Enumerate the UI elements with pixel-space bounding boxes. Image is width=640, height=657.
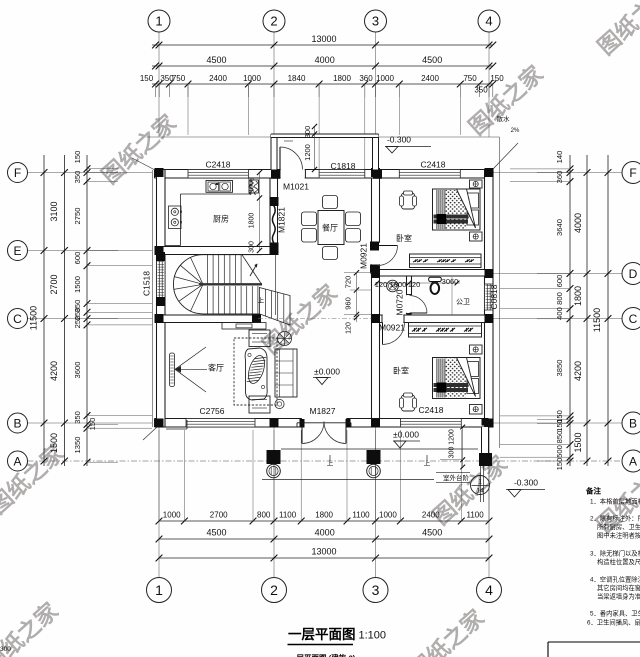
axis circle A right (622, 450, 640, 472)
hall dim line (344, 270, 372, 334)
svg-text:5．番内家具、卫生洁具仅供参考: 5．番内家具、卫生洁具仅供参考 (590, 609, 640, 618)
level bottom -0.300 (506, 478, 545, 498)
svg-text:800: 800 (555, 292, 564, 305)
svg-text:1000: 1000 (379, 511, 397, 520)
stair up label (258, 296, 265, 305)
svg-text:4: 4 (485, 582, 493, 598)
room label dining (322, 224, 338, 233)
porch column axis2 (267, 450, 281, 478)
svg-text:4200: 4200 (573, 361, 583, 381)
svg-text:140: 140 (555, 151, 564, 164)
svg-text:3850: 3850 (555, 360, 564, 377)
wall axis1 (west exterior) (157, 170, 166, 428)
room label living (208, 363, 224, 373)
left dimension lines (41, 155, 152, 466)
window C1818 top-center (319, 170, 365, 179)
label C1518 (142, 271, 152, 296)
axis D line right (380, 273, 623, 275)
svg-text:1000: 1000 (243, 74, 261, 83)
wardrobe bedroom2 (409, 323, 482, 338)
svg-text:C2418: C2418 (205, 160, 230, 170)
svg-text:1000: 1000 (376, 74, 394, 83)
svg-text:4．空调孔位置除注明外，离地面2: 4．空调孔位置除注明外，离地面2 (590, 575, 640, 584)
svg-text:2%: 2% (511, 128, 520, 134)
wall D bath north (372, 270, 494, 277)
axis circle A left (8, 451, 28, 471)
kitchen flue (249, 180, 259, 195)
svg-text:720: 720 (344, 276, 353, 289)
top dim row 4500 4000 4500 (206, 55, 442, 65)
svg-text:M0720: M0720 (395, 289, 405, 315)
svg-text:1800: 1800 (333, 74, 351, 83)
svg-text:11500: 11500 (592, 308, 602, 332)
room label bath (456, 298, 470, 306)
svg-text:所有厨房、卫生间墙体四周除门: 所有厨房、卫生间墙体四周除门 (597, 522, 640, 531)
svg-text:4000: 4000 (573, 213, 583, 233)
svg-text:C1518: C1518 (142, 271, 152, 296)
svg-text:150: 150 (490, 74, 504, 83)
axis C interior segment (258, 318, 372, 320)
kitchen sink (206, 181, 233, 193)
bottom dimension lines (156, 430, 493, 561)
svg-text:卧室: 卧室 (393, 366, 409, 376)
wall C living top (157, 315, 259, 323)
titleblock rectangle corner (548, 642, 640, 657)
eave hip line top-left (132, 158, 155, 170)
svg-text:120: 120 (375, 280, 388, 289)
svg-text:1:100: 1:100 (359, 630, 387, 642)
svg-text:350: 350 (73, 411, 82, 424)
living rug (234, 338, 277, 405)
svg-text:1: 1 (155, 14, 162, 29)
label C2418 top-left (205, 160, 230, 170)
svg-text:400: 400 (555, 307, 564, 320)
svg-text:餐厅: 餐厅 (322, 224, 338, 233)
kitchen stove (169, 206, 182, 229)
svg-text:360: 360 (359, 74, 373, 83)
bath partition wall (407, 276, 412, 314)
svg-text:1800: 1800 (390, 280, 407, 289)
porch corner column (479, 453, 492, 466)
svg-text:120: 120 (408, 280, 421, 289)
svg-text:B: B (629, 417, 637, 431)
top dim total 13000 (311, 34, 336, 44)
outdoor steps rails (481, 466, 484, 502)
door M1821 sliding leaf in axis2 wall (270, 205, 278, 244)
svg-text:1000: 1000 (163, 511, 181, 520)
axis circle D right (622, 263, 640, 285)
axis circle 2 bottom (262, 578, 287, 603)
svg-text:M1827: M1827 (310, 406, 336, 416)
svg-text:M0921: M0921 (359, 243, 369, 269)
bath dim line (375, 277, 460, 315)
svg-text:2: 2 (270, 14, 277, 29)
door M0921 dining leaf (378, 246, 398, 266)
porch column axis3 (367, 450, 381, 478)
label C2418 bottom (418, 405, 443, 415)
right dim total 11500 (592, 308, 602, 332)
svg-text:250: 250 (73, 316, 82, 329)
svg-text:4500: 4500 (422, 528, 442, 538)
svg-text:A: A (629, 455, 637, 469)
axis circle 3 bottom (363, 578, 388, 603)
svg-text:1500: 1500 (49, 433, 59, 453)
label M0921 bedroom2 (379, 323, 405, 333)
svg-text:M1021: M1021 (283, 182, 309, 192)
svg-text:A: A (13, 455, 21, 469)
svg-text:卧室: 卧室 (396, 233, 412, 243)
kitchen counter (165, 178, 251, 246)
watermark 2 (464, 60, 549, 140)
roof eave lines (147, 137, 500, 448)
svg-text:150: 150 (555, 458, 564, 471)
room label bedroom2 (393, 366, 409, 376)
svg-text:厨房: 厨房 (213, 214, 229, 224)
watermark 1 (97, 109, 182, 189)
svg-text:3100: 3100 (49, 201, 59, 221)
svg-text:C0818: C0818 (489, 284, 499, 309)
window C0818 east (485, 284, 494, 310)
svg-text:120: 120 (346, 322, 353, 334)
structural columns (155, 168, 494, 428)
watermark 5 (0, 439, 69, 519)
svg-text:1000: 1000 (249, 177, 256, 193)
svg-text:F: F (629, 166, 636, 180)
dining table and chairs (302, 196, 361, 260)
svg-text:2400: 2400 (422, 511, 440, 520)
svg-text:构造柱位置及尺寸详见结构施工: 构造柱位置及尺寸详见结构施工 (597, 557, 640, 566)
axis circle F left (8, 163, 28, 183)
level hall pm0.000 (313, 367, 340, 385)
svg-text:3: 3 (372, 582, 380, 598)
svg-text:1840: 1840 (288, 74, 306, 83)
svg-text:4000: 4000 (315, 55, 335, 65)
outdoor steps label (436, 473, 490, 495)
living armchair top (249, 330, 270, 347)
svg-text:150: 150 (140, 74, 154, 83)
window C2418 top-right (399, 170, 460, 179)
tv bench (222, 323, 266, 330)
axis circle C left (8, 309, 28, 329)
svg-text:±0.000: ±0.000 (393, 430, 419, 440)
window C1518 west (157, 260, 166, 298)
right dim chain values (555, 151, 564, 471)
svg-text:M1821: M1821 (277, 207, 287, 233)
svg-text:300: 300 (303, 126, 312, 139)
window C2756 bottom-left (186, 419, 255, 428)
svg-text:公卫: 公卫 (456, 298, 470, 306)
door opening M0921 dining in axis3 wall (371, 242, 380, 265)
svg-text:2750: 2750 (73, 208, 82, 225)
bottom dim chain values (163, 511, 484, 520)
svg-text:-0.300: -0.300 (514, 478, 538, 488)
door M0720 leaf and swing (410, 296, 428, 314)
toilet (429, 277, 442, 294)
svg-text:850: 850 (555, 431, 564, 444)
svg-text:2400: 2400 (421, 74, 439, 83)
column B4 (482, 418, 489, 426)
svg-text:800: 800 (257, 511, 271, 520)
label C2418 top-right (420, 160, 445, 170)
living side table (275, 399, 284, 408)
svg-text:1350: 1350 (73, 437, 82, 454)
sanshui note (497, 114, 521, 134)
svg-text:1100: 1100 (279, 511, 297, 520)
svg-text:6．卫生间播风、扇气见设备图。: 6．卫生间播风、扇气见设备图。 (587, 618, 640, 627)
rear bay walls (271, 134, 379, 170)
walkway stub wall at axis4 (482, 427, 489, 453)
svg-text:1800: 1800 (315, 511, 333, 520)
living chaise lounge (245, 348, 268, 400)
svg-text:1800: 1800 (573, 286, 583, 306)
apron corner bottom-left (143, 427, 157, 440)
wall C bath-bedroom2 (372, 315, 494, 323)
title underline (288, 644, 354, 646)
corner dim 300 (0, 646, 11, 653)
watermark 3 (593, 0, 640, 60)
label M1821 (277, 207, 287, 233)
watermark 8 (0, 597, 63, 657)
left dim chain values (73, 151, 97, 454)
staircase (173, 255, 290, 325)
axis grid vertical lines (159, 32, 489, 578)
watermark 7 (592, 458, 640, 538)
wall E kitchen south (157, 247, 278, 255)
svg-text:600: 600 (555, 275, 564, 288)
bay dim 1200 (303, 144, 312, 161)
living radiator (170, 353, 175, 387)
desk chair bedroom2 (400, 393, 417, 411)
label M0720 (395, 289, 405, 315)
axis circle 2 top (263, 10, 285, 32)
axis grid horizontal lines (28, 173, 623, 424)
bed bedroom2 (433, 358, 481, 399)
svg-text:4: 4 (485, 14, 492, 29)
notes block (585, 486, 640, 627)
svg-text:当梁返墙身为准，详见各层平面: 当梁返墙身为准，详见各层平面 (597, 592, 640, 601)
svg-text:2700: 2700 (210, 511, 228, 520)
bottom dim row 4500 4000 4500 (206, 528, 442, 538)
svg-text:客厅: 客厅 (208, 363, 224, 373)
svg-text:C2418: C2418 (418, 405, 443, 415)
right dim row values (573, 213, 583, 453)
axis circle 3 top (365, 10, 387, 32)
west porch step (166, 420, 187, 429)
svg-text:750: 750 (172, 74, 186, 83)
left dim total 11500 (29, 306, 39, 330)
axis circle F right (622, 162, 640, 184)
label C1818 (330, 161, 355, 171)
porch up marks (327, 455, 431, 467)
svg-text:500: 500 (555, 445, 564, 458)
svg-text:1200: 1200 (303, 144, 312, 161)
nightstand b2 top (470, 345, 483, 354)
svg-text:3060: 3060 (442, 277, 459, 286)
svg-text:4500: 4500 (422, 55, 442, 65)
wall axis2 kitchen-dining (270, 178, 278, 251)
kitchen interior dims (249, 170, 263, 253)
svg-text:C2418: C2418 (420, 160, 445, 170)
svg-text:4500: 4500 (206, 55, 226, 65)
bottom dim total 13000 (311, 547, 336, 557)
svg-text:300: 300 (0, 646, 11, 653)
nightstand b1 top (470, 180, 483, 188)
wall axis3 (372, 178, 380, 419)
svg-text:一层平面图 (建施-3): 一层平面图 (建施-3) (289, 653, 356, 657)
svg-text:960: 960 (344, 297, 353, 310)
svg-text:1200: 1200 (449, 429, 456, 445)
svg-text:2．除有标注外：所有墙体均为24: 2．除有标注外：所有墙体均为24 (590, 514, 640, 523)
window C2418 bottom-right (400, 419, 461, 428)
door opening M0921 in wall C (382, 314, 404, 324)
door opening M1827 in wall B (301, 418, 347, 428)
svg-text:1: 1 (155, 582, 163, 598)
label M1827 (310, 406, 336, 416)
svg-text:其它房间均在窗台下铺设，空调: 其它房间均在窗台下铺设，空调 (597, 583, 640, 592)
svg-text:2700: 2700 (49, 274, 59, 294)
wall B (bottom exterior) (155, 419, 494, 428)
living sofa (275, 349, 297, 397)
right dimension lines (500, 155, 611, 466)
porch slab edges (262, 449, 478, 480)
axis circle 4 bottom (477, 578, 502, 603)
desk chair bedroom1 (400, 191, 417, 209)
wall axis4 (east exterior) (485, 170, 494, 428)
svg-text:1800: 1800 (249, 213, 256, 229)
svg-text:13000: 13000 (311, 547, 336, 557)
svg-text:D: D (629, 267, 638, 281)
window C2418 top-left (188, 170, 248, 179)
eave hip line top-right (493, 143, 518, 169)
title sub partial (289, 653, 356, 657)
svg-text:C: C (13, 312, 22, 326)
washing machine (387, 280, 399, 292)
svg-text:350: 350 (474, 86, 488, 95)
svg-text:4200: 4200 (49, 361, 59, 381)
bay dim line (312, 124, 317, 172)
svg-text:备注: 备注 (585, 486, 601, 496)
svg-text:3．除无梯门以及栏杆扶手外，所有: 3．除无梯门以及栏杆扶手外，所有 (590, 549, 640, 558)
svg-text:E: E (13, 244, 21, 258)
wardrobe bedroom1 (410, 254, 482, 268)
level porch pm0.000 (393, 430, 420, 449)
bay dim 300 (303, 126, 312, 139)
title first floor plan (288, 627, 386, 642)
axis circle B right (622, 412, 640, 434)
svg-text:2: 2 (270, 582, 278, 598)
axis A line (28, 460, 623, 462)
svg-text:300: 300 (449, 447, 456, 459)
nightstand b1 bottom (470, 232, 483, 241)
svg-text:300: 300 (249, 241, 256, 253)
svg-text:150: 150 (73, 151, 82, 164)
svg-text:11500: 11500 (29, 306, 39, 330)
watermark 6 (428, 450, 513, 530)
axis circle 1 top (148, 10, 170, 32)
svg-text:3: 3 (372, 14, 379, 29)
svg-text:360: 360 (555, 171, 564, 184)
svg-text:4000: 4000 (315, 528, 335, 538)
left dim row values (49, 201, 59, 453)
svg-text:1．本格首层地面标高为±0.000，室: 1．本格首层地面标高为±0.000，室 (590, 497, 640, 506)
living plant table (278, 332, 292, 346)
label C2756 (199, 406, 224, 416)
nightstand b2 bottom (470, 405, 483, 415)
axis circle 1 bottom (147, 578, 172, 603)
door opening M1021 in wall F (280, 169, 305, 179)
svg-text:2400: 2400 (209, 74, 227, 83)
svg-text:图中未注明者按结构施工图设置: 图中未注明者按结构施工图设置 (597, 531, 640, 540)
svg-text:散水: 散水 (497, 114, 511, 123)
axis circle E left (8, 241, 28, 261)
svg-text:750: 750 (463, 74, 477, 83)
porch dim 300 1200 (440, 425, 465, 470)
svg-text:上: 上 (258, 296, 265, 305)
svg-text:C1818: C1818 (330, 161, 355, 171)
svg-text:150: 150 (88, 418, 97, 431)
svg-text:一层平面图: 一层平面图 (288, 627, 356, 642)
svg-text:C2756: C2756 (199, 406, 224, 416)
room label kitchen (213, 214, 229, 224)
svg-text:1500: 1500 (573, 432, 583, 452)
label C0818 (489, 284, 499, 309)
door opening M0720 in partition (406, 295, 412, 314)
svg-text:3600: 3600 (73, 362, 82, 379)
svg-text:±0.000: ±0.000 (314, 367, 340, 377)
svg-text:C: C (629, 312, 638, 326)
svg-text:600: 600 (73, 252, 82, 265)
living label leader arrow (175, 347, 207, 392)
svg-text:-0.300: -0.300 (387, 135, 411, 145)
entry double door M1827 (297, 422, 351, 444)
label M0921 dining (359, 243, 369, 269)
watermark 9 (405, 604, 490, 657)
room label bedroom1 (396, 233, 412, 243)
axis circle C right (622, 308, 640, 330)
svg-text:1100: 1100 (352, 511, 370, 520)
wall F (top exterior) (155, 170, 494, 179)
door M0921 bedroom2 leaf (383, 323, 405, 345)
svg-text:3640: 3640 (555, 219, 564, 236)
watermark 4 (258, 279, 343, 359)
svg-text:1500: 1500 (73, 276, 82, 293)
svg-text:B: B (13, 417, 21, 431)
axis circle B left (8, 413, 28, 433)
axis circle 4 top (478, 10, 500, 32)
svg-text:350: 350 (73, 171, 82, 184)
top dim chain values (140, 74, 504, 95)
door M1021 leaf and swing (280, 147, 303, 170)
svg-text:室外台阶: 室外台阶 (443, 473, 470, 482)
svg-text:150: 150 (555, 419, 564, 432)
stair well edge line (275, 255, 277, 316)
svg-text:4500: 4500 (206, 528, 226, 538)
entry door jamb blocks (300, 419, 351, 428)
svg-text:1100: 1100 (466, 511, 484, 520)
top dimension lines (152, 42, 496, 170)
label M1021 (283, 182, 309, 192)
svg-text:F: F (14, 166, 21, 180)
svg-text:13000: 13000 (311, 34, 336, 44)
level -0.300 rear (385, 135, 431, 154)
living armchair bottom (249, 396, 270, 413)
bed bedroom1 (433, 189, 481, 230)
